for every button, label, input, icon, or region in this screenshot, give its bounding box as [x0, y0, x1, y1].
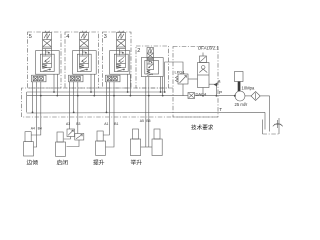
svg-text:3: 3: [104, 34, 107, 40]
svg-text:技术要求: 技术要求: [191, 124, 214, 132]
svg-text:B4: B4: [38, 127, 42, 131]
svg-text:DFA10/2.1: DFA10/2.1: [198, 45, 219, 50]
svg-text:2: 2: [137, 48, 140, 54]
svg-text:启闭: 启闭: [57, 159, 69, 167]
svg-text:A1: A1: [104, 122, 108, 126]
svg-text:A4: A4: [31, 127, 35, 131]
svg-text:5: 5: [29, 34, 32, 40]
svg-text:P: P: [219, 90, 222, 95]
svg-text:LPG1: LPG1: [175, 69, 186, 74]
svg-text:举升: 举升: [131, 159, 143, 167]
svg-text:B5: B5: [146, 119, 150, 123]
svg-text:B3: B3: [76, 122, 80, 126]
svg-text:A3: A3: [66, 122, 70, 126]
svg-text:DAC4: DAC4: [196, 91, 207, 96]
svg-text:T: T: [219, 107, 222, 112]
svg-text:25 ml/r: 25 ml/r: [235, 102, 248, 107]
svg-text:10Mpa: 10Mpa: [242, 85, 255, 90]
svg-text:边倾: 边倾: [27, 159, 39, 167]
svg-text:B1: B1: [114, 122, 118, 126]
svg-text:A5: A5: [140, 119, 144, 123]
svg-text:4: 4: [66, 34, 69, 40]
svg-text:提升: 提升: [93, 159, 105, 167]
